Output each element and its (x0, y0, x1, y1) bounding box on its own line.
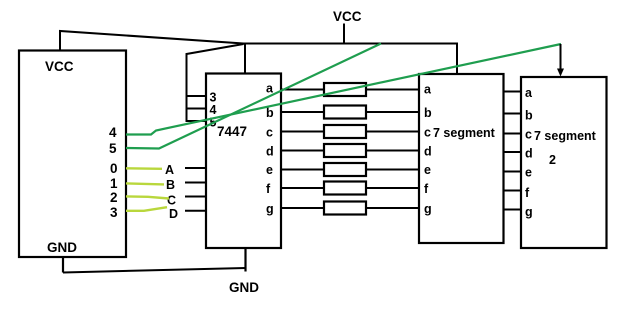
wire VCC rail drop to 7447 top (244, 44, 246, 74)
svg-text:g: g (525, 205, 533, 219)
wire 7447 b to resistor R2 (281, 111, 324, 113)
wire VCC rail to 7447 pins 3-4-5 ladder (187, 44, 244, 121)
wire left block GND down (62, 257, 64, 273)
wire display1 c to display2 c (504, 133, 522, 135)
svg-text:b: b (424, 106, 432, 120)
resistor R6 (324, 182, 366, 195)
wire ground bus slanted (63, 268, 246, 273)
wire VCC rail drop to display 1 (456, 43, 458, 75)
svg-text:2: 2 (549, 153, 556, 167)
decoder 7447 U1 (206, 74, 281, 249)
wire stub C to 7447 (185, 196, 206, 198)
resistor R3 (324, 125, 366, 138)
7 segment display 1 U2 (419, 74, 504, 243)
wire 7447 a to resistor R1 (281, 89, 324, 91)
svg-text:a: a (424, 83, 432, 97)
arrowhead into display 2 (557, 69, 564, 77)
wire display1 f to display2 f (504, 190, 522, 192)
wire resistor R2 to display 1 b (366, 111, 419, 113)
svg-text:5: 5 (109, 141, 117, 156)
svg-text:e: e (424, 163, 431, 177)
wire stub pin 4 (7447) (186, 108, 207, 110)
wire stub B to 7447 (185, 182, 206, 184)
wire VCC lead down to rail (343, 24, 345, 44)
svg-text:b: b (525, 109, 533, 123)
svg-text:0: 0 (110, 161, 118, 176)
svg-text:d: d (525, 147, 533, 161)
wire yellow pin 3 to D (126, 207, 167, 211)
wire resistor R5 to display 1 e (366, 169, 419, 171)
wire 7447 GND drop (244, 248, 246, 272)
svg-text:a: a (266, 82, 274, 96)
resistor R2 (324, 106, 366, 119)
svg-text:7 segment: 7 segment (433, 126, 496, 140)
svg-text:d: d (424, 145, 432, 159)
svg-text:C: C (167, 194, 176, 208)
7 segment display 2 U3 (521, 77, 607, 248)
wire display1 d to display2 d (504, 151, 522, 153)
svg-text:e: e (525, 166, 532, 180)
svg-text:VCC: VCC (45, 59, 74, 74)
wire 7447 g to resistor R7 (281, 207, 324, 209)
svg-text:A: A (165, 163, 174, 177)
wire resistor R7 to display 1 g (366, 207, 419, 209)
svg-text:GND: GND (47, 240, 77, 255)
wire display1 a to display2 a (504, 91, 522, 93)
svg-text:2: 2 (110, 190, 118, 205)
svg-text:a: a (525, 86, 533, 100)
wire left block top to VCC rail (60, 31, 244, 51)
resistor R5 (324, 163, 366, 176)
wire display1 g to display2 g (504, 209, 522, 211)
resistor R4 (324, 144, 366, 157)
svg-text:1: 1 (110, 176, 118, 191)
wire drop to display 2 with arrow (560, 44, 562, 70)
BCD input source block U0 (19, 51, 126, 258)
wire yellow pin 1 to B (126, 183, 164, 184)
wire yellow pin 0 to A (126, 167, 162, 170)
wire resistor R6 to display 1 f (366, 187, 419, 189)
wire stub pin 3 (7447) (186, 95, 207, 97)
wire VCC rail horizontal (244, 43, 458, 45)
wire resistor R4 to display 1 d (366, 150, 419, 152)
wire 7447 c to resistor R3 (281, 131, 324, 133)
svg-text:e: e (266, 163, 273, 177)
resistor R1 (324, 83, 366, 96)
svg-text:VCC: VCC (333, 9, 362, 24)
wire stub pin 5 (7447) (186, 120, 207, 122)
svg-text:g: g (266, 202, 274, 216)
svg-text:c: c (266, 126, 273, 140)
wire display1 b to display2 b (504, 113, 522, 115)
svg-text:g: g (424, 202, 432, 216)
svg-text:b: b (266, 106, 274, 120)
wire resistor R1 to display 1 a (366, 89, 419, 91)
svg-text:4: 4 (109, 125, 117, 140)
wire 7447 d to resistor R4 (281, 150, 324, 152)
wire yellow pin 2 to C (126, 196, 169, 198)
svg-text:d: d (266, 145, 274, 159)
wire 7447 f to resistor R6 (281, 187, 324, 189)
svg-text:7 segment: 7 segment (534, 129, 597, 143)
svg-text:3: 3 (110, 205, 118, 220)
wire 7447 e to resistor R5 (281, 169, 324, 171)
wire stub D to 7447 (185, 210, 206, 212)
svg-text:GND: GND (229, 280, 259, 295)
wire green pin 5 to VCC rail (126, 44, 381, 149)
svg-text:c: c (525, 128, 532, 142)
wire resistor R3 to display 1 c (366, 131, 419, 133)
svg-text:c: c (424, 126, 431, 140)
wire stub A to 7447 (185, 167, 206, 169)
svg-text:D: D (169, 207, 178, 221)
wire display1 e to display2 e (504, 171, 522, 173)
wire green pin 4 to display 2 drop (126, 44, 561, 135)
svg-text:B: B (166, 178, 175, 192)
resistor R7 (324, 202, 366, 215)
svg-text:7447: 7447 (217, 124, 247, 139)
